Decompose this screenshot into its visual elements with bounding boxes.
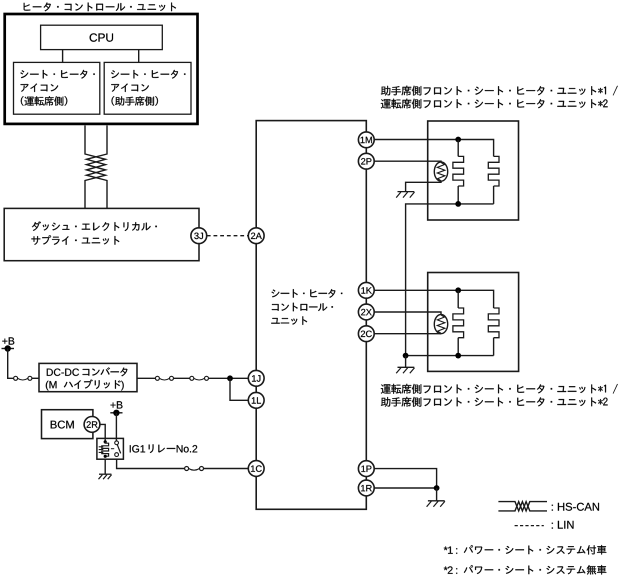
wire down to ground xyxy=(436,488,438,501)
box seat heater icon (passenger side) xyxy=(104,62,191,114)
label: front seat heater unit (bottom) xyxy=(381,384,618,394)
legend HS-CAN twisted pair symbol xyxy=(498,502,547,511)
label LIN xyxy=(552,521,574,529)
heater element right (bottom unit) xyxy=(488,308,499,338)
box DC-DC converter xyxy=(39,363,137,391)
ground (relay coil) xyxy=(99,473,111,475)
wire heater bottom rail (bottom unit) xyxy=(406,355,494,357)
connector 2X xyxy=(358,304,374,320)
connector 1L xyxy=(248,392,264,408)
wire twisted pair strand B xyxy=(85,125,107,208)
box front seat heater unit (bottom) xyxy=(428,273,519,372)
box seat heater control unit xyxy=(256,121,366,510)
connector pair (IG1 feed) xyxy=(185,467,189,471)
wire to shared ground xyxy=(405,356,407,368)
label seat heater icon passenger side text xyxy=(111,70,185,79)
power +B (battery, top) xyxy=(2,337,14,344)
node junction ground (shared) xyxy=(403,353,409,359)
wire 1M to heater unit top rail xyxy=(374,140,493,157)
relay K1 IG1 relay No.2 box xyxy=(97,438,124,459)
wire 2P to thermistor (top unit) xyxy=(374,160,441,163)
box dash electrical supply unit xyxy=(4,208,199,260)
box seat heater icon (driver side) xyxy=(14,62,100,114)
node junction 1P/1R ground xyxy=(434,485,440,491)
relay coil xyxy=(104,440,107,443)
connector pair 2 (DC-DC out) xyxy=(190,376,194,380)
node junction bottom (bottom unit) xyxy=(455,353,461,359)
connector 1R xyxy=(358,480,374,496)
label HS-CAN xyxy=(552,503,599,511)
label: heater control unit ヒータ・コントロール・ユニット xyxy=(24,3,176,12)
connector pair (battery feed) xyxy=(14,376,18,380)
wire 2C to thermistor bottom (bottom unit) xyxy=(374,333,441,335)
wire 2R to relay coil xyxy=(100,424,105,441)
wire 1R to ground xyxy=(374,487,436,489)
label BCM text xyxy=(51,421,74,429)
connector 1C xyxy=(248,461,264,477)
box U1 heater control unit (thick) xyxy=(5,14,198,124)
relay switch blade xyxy=(117,445,121,454)
label seat heater icon driver side text xyxy=(20,70,94,79)
footnote *1 xyxy=(444,547,457,554)
box CPU xyxy=(41,25,163,49)
connector 2R xyxy=(84,417,100,433)
node junction top (bottom unit) xyxy=(455,287,461,293)
label dash electrical supply unit text xyxy=(32,221,157,231)
wire CPU to left icon box xyxy=(62,50,64,63)
ground (shared heater units) xyxy=(398,366,415,368)
footnote *2 xyxy=(444,566,457,573)
connector 2A xyxy=(248,228,264,244)
wire junction to 1L xyxy=(230,378,248,400)
wire 2X to thermistor (bottom unit) xyxy=(374,312,441,315)
wire 1K to heater unit top rail (bottom unit) xyxy=(374,290,493,308)
box BCM xyxy=(42,410,93,439)
connector 1P xyxy=(358,461,374,477)
ground (top unit sensor) xyxy=(398,191,415,193)
wire relay switch to 1C xyxy=(117,459,185,468)
connector 2P xyxy=(358,153,374,169)
wire 1P to ground xyxy=(374,469,436,488)
label CPU xyxy=(90,33,113,41)
connector 1J xyxy=(248,370,264,386)
label IG1 relay No.2 xyxy=(130,445,145,452)
node junction bottom (heater top unit) xyxy=(455,201,461,207)
wire heater bottom rail (top unit) to ground line xyxy=(406,204,494,356)
wire thermistor to ground (top unit) xyxy=(406,181,441,191)
heater element right (top unit) xyxy=(488,156,499,186)
ground (1P/1R) xyxy=(428,500,445,502)
wire +B to DC-DC converter xyxy=(8,349,14,379)
node junction 1J/1L xyxy=(227,375,233,381)
legend LIN dashed symbol xyxy=(515,525,544,527)
label: front seat heater unit (top) xyxy=(381,86,618,96)
wire CPU to right icon box xyxy=(138,50,140,63)
wire +B to relay switch xyxy=(115,413,117,442)
wire relay coil to ground xyxy=(104,459,106,474)
node junction top (heater top) xyxy=(455,137,461,143)
wire LIN dashed 3J to 2A xyxy=(207,235,249,237)
heater element left (top unit) xyxy=(457,140,459,157)
thermistor (bottom unit) xyxy=(434,315,447,334)
label DC-DC converter text xyxy=(47,369,79,376)
connector pair 1 (DC-DC out) xyxy=(155,376,159,380)
wire twisted pair strand A xyxy=(85,125,107,208)
box front seat heater unit (top) xyxy=(428,121,519,220)
power +B (battery, relay) xyxy=(111,401,123,408)
label seat heater control unit text xyxy=(272,289,343,298)
thermistor (top unit) xyxy=(434,162,447,181)
connector 2C xyxy=(358,326,374,342)
connector 3J xyxy=(191,228,207,244)
heater element left (bottom unit) xyxy=(457,290,459,308)
relay switch contacts xyxy=(115,441,119,445)
connector 1M xyxy=(358,132,374,148)
wire DC-DC to 1J xyxy=(137,377,155,379)
connector 1K xyxy=(358,282,374,298)
